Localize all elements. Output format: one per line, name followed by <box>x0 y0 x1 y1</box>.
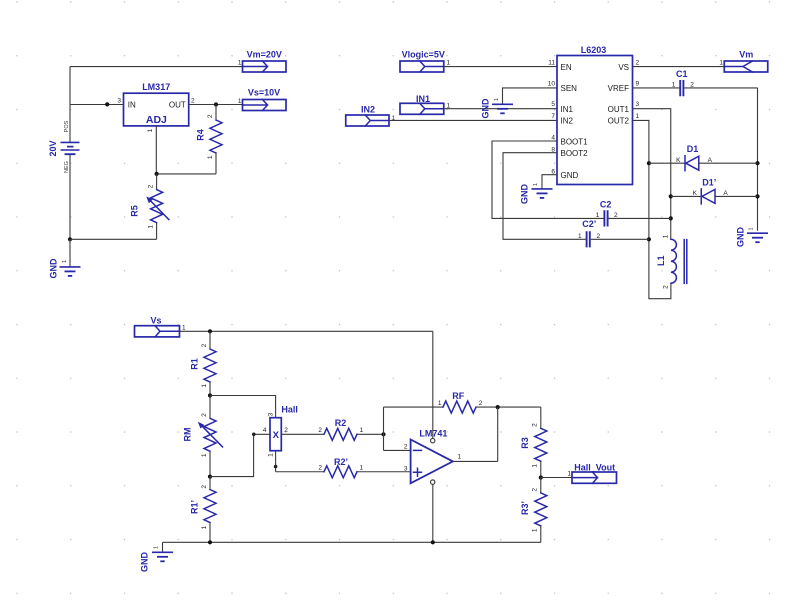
node junction D1' anode <box>755 194 759 198</box>
wire IN1 port to pin IN1 <box>444 108 557 110</box>
svg-text:5: 5 <box>551 101 555 108</box>
svg-text:POS: POS <box>64 120 70 132</box>
svg-text:1: 1 <box>182 325 186 332</box>
svg-text:L6203: L6203 <box>581 45 607 55</box>
svg-text:20V: 20V <box>48 140 58 156</box>
svg-text:1: 1 <box>662 234 669 238</box>
wire GND rail bottom <box>163 541 541 543</box>
wire LM317 ADJ pin down <box>155 126 157 174</box>
wire D1 cathode side <box>649 162 685 164</box>
svg-text:OUT1: OUT1 <box>608 105 630 114</box>
wire to RF pin1 <box>384 406 444 408</box>
svg-text:R1: R1 <box>190 358 200 370</box>
inductor L1 <box>656 234 687 289</box>
node junction op-amp V-/rail <box>431 540 435 544</box>
svg-text:1: 1 <box>533 183 539 186</box>
svg-text:ADJ: ADJ <box>146 114 167 126</box>
svg-text:GND: GND <box>520 184 530 205</box>
diode D1 <box>676 144 713 171</box>
node junction RM/R1' <box>208 475 212 479</box>
op-amp U LM741 <box>411 429 453 485</box>
node junction R2/feedback <box>381 432 385 436</box>
svg-text:2: 2 <box>201 413 208 417</box>
wire top rail from battery to port Vm=20V <box>70 66 243 68</box>
wire IN2 port to pin IN2 <box>389 119 557 121</box>
wire OUT1 right and down to L1 <box>633 109 671 240</box>
svg-text:VREF: VREF <box>608 84 629 93</box>
node junction battery/R5 ground rail <box>68 237 72 241</box>
wire R5 bottom to battery column <box>70 238 157 240</box>
port IN1 <box>400 94 451 114</box>
svg-text:1: 1 <box>636 113 640 120</box>
capacitor C2' <box>578 219 601 247</box>
wire Vlogic to EN <box>444 66 557 68</box>
svg-text:LM317: LM317 <box>142 82 170 92</box>
svg-text:2: 2 <box>148 184 155 188</box>
svg-text:1: 1 <box>238 60 242 67</box>
svg-text:1: 1 <box>578 233 582 240</box>
wire Vs rail <box>180 330 433 332</box>
hall sensor U Hall <box>263 405 298 457</box>
wire to op-amp minus input <box>384 449 411 451</box>
port Vlogic=5V <box>400 49 451 72</box>
svg-text:IN1: IN1 <box>416 94 430 104</box>
svg-text:Vs: Vs <box>150 316 161 326</box>
wire rail to ground symbol <box>162 542 164 552</box>
svg-text:2: 2 <box>201 343 208 347</box>
svg-text:EN: EN <box>561 63 572 72</box>
svg-text:1: 1 <box>438 400 442 407</box>
resistor R3 <box>520 423 547 478</box>
diode D1' <box>693 178 729 204</box>
node junction OUT1/C2 <box>669 216 673 220</box>
svg-text:1: 1 <box>201 525 208 529</box>
port Hall_Vout <box>567 462 616 483</box>
svg-text:Hall: Hall <box>281 405 298 415</box>
svg-text:1: 1 <box>147 128 154 132</box>
wire RF pin2 to R3 <box>476 406 541 408</box>
wire op-amp output <box>453 407 498 461</box>
svg-text:X: X <box>273 430 280 441</box>
svg-text:Vlogic=5V: Vlogic=5V <box>402 49 445 59</box>
svg-text:OUT: OUT <box>169 101 186 110</box>
wire from battery column to LM317 IN <box>70 104 124 106</box>
svg-text:3: 3 <box>404 465 408 472</box>
svg-text:3: 3 <box>117 98 121 105</box>
wire D1' cathode side <box>671 195 701 197</box>
svg-text:SEN: SEN <box>561 84 578 93</box>
wire D1 anode side <box>699 162 758 164</box>
svg-text:1: 1 <box>458 454 462 461</box>
wire VS to port Vm <box>633 66 725 68</box>
wire feedback vertical <box>383 407 385 450</box>
node pin-end dot Hall pin1 <box>274 465 278 469</box>
svg-text:LM741: LM741 <box>419 429 447 439</box>
svg-text:2: 2 <box>191 98 195 105</box>
svg-text:R2’: R2’ <box>334 457 348 467</box>
port IN2 <box>346 104 396 126</box>
svg-text:1: 1 <box>154 546 160 549</box>
capacitor C1 <box>672 69 695 96</box>
svg-text:OUT2: OUT2 <box>608 117 630 126</box>
wire R4 bottom to ADJ node <box>157 173 216 175</box>
svg-text:1: 1 <box>201 384 208 388</box>
svg-text:NEG: NEG <box>64 161 70 173</box>
svg-text:10: 10 <box>548 81 556 88</box>
svg-text:2: 2 <box>318 427 322 434</box>
svg-text:3: 3 <box>267 412 274 416</box>
svg-text:R1’: R1’ <box>190 500 200 514</box>
resistor R2 <box>318 418 363 440</box>
svg-text:2: 2 <box>404 444 408 451</box>
wire GND pin 6 to ground <box>542 175 557 189</box>
wire BOOT2 to C2' <box>503 153 586 240</box>
wire to port Hall_Vout <box>541 477 572 479</box>
svg-text:2: 2 <box>284 427 288 434</box>
node junction R1'/rail <box>208 540 212 544</box>
ground GND (SEN) <box>481 98 514 119</box>
svg-text:1: 1 <box>360 464 364 471</box>
svg-text:L1: L1 <box>656 255 666 266</box>
svg-text:1: 1 <box>532 464 539 468</box>
resistor RF <box>438 391 483 413</box>
node junction R1/RM <box>208 393 212 397</box>
svg-text:2: 2 <box>207 114 214 118</box>
wire battery positive vertical <box>69 67 71 143</box>
svg-text:1: 1 <box>532 528 539 532</box>
wire Hall pin2 to R2 <box>281 433 324 435</box>
node junction OUT2/D1 <box>647 161 651 165</box>
wire LM317 OUT to port Vs=10V <box>189 104 243 106</box>
wire VREF to C1 <box>633 87 680 89</box>
ground GND (right column) <box>736 227 769 248</box>
svg-text:1: 1 <box>207 155 214 159</box>
node junction ADJ/R4/R5 <box>155 172 159 176</box>
wire C2 to OUT1 column <box>609 217 671 219</box>
svg-text:1: 1 <box>62 260 68 263</box>
svg-text:R5: R5 <box>129 205 139 217</box>
node junction D1 anode <box>755 161 759 165</box>
svg-text:Vm=20V: Vm=20V <box>247 49 282 59</box>
svg-text:D1: D1 <box>687 144 699 154</box>
potentiometer RM <box>183 396 223 477</box>
svg-text:1: 1 <box>749 227 755 230</box>
wire stub to ground symbol <box>69 239 71 267</box>
resistor R2' <box>318 457 363 478</box>
wire down to R3 <box>540 407 542 428</box>
wire D1' anode side <box>715 195 758 197</box>
svg-text:BOOT2: BOOT2 <box>561 149 589 158</box>
wire Hall pin1 down <box>275 451 277 472</box>
svg-text:1: 1 <box>201 453 208 457</box>
svg-text:1: 1 <box>672 82 676 89</box>
svg-text:C1: C1 <box>676 69 688 79</box>
svg-text:2: 2 <box>318 464 322 471</box>
wire OUT2 right and down <box>633 120 671 298</box>
svg-text:Hall_Vout: Hall_Vout <box>574 462 615 472</box>
svg-text:1: 1 <box>719 60 723 67</box>
svg-text:R3’: R3’ <box>520 501 530 515</box>
svg-text:1: 1 <box>567 471 571 478</box>
IC U L6203 body <box>557 45 633 185</box>
svg-text:1: 1 <box>360 427 364 434</box>
svg-text:K: K <box>676 157 681 164</box>
svg-text:GND: GND <box>561 171 579 180</box>
port Vs=10V <box>238 87 286 110</box>
wire C2' to OUT2 column <box>591 238 649 240</box>
ground GND (L6203 pin6) <box>520 183 553 204</box>
svg-text:9: 9 <box>636 81 640 88</box>
wire R1 node to Hall top pin <box>210 396 276 418</box>
svg-text:Vm: Vm <box>739 49 753 59</box>
svg-text:C2’: C2’ <box>582 219 596 229</box>
svg-text:1: 1 <box>267 453 274 457</box>
svg-text:GND: GND <box>736 227 746 248</box>
wire RM node up to Hall pin 4 <box>210 434 270 476</box>
wire R2' row to op-amp plus input <box>276 471 324 473</box>
wire op-amp V+ from Vs rail <box>432 331 434 438</box>
svg-text:2: 2 <box>532 423 539 427</box>
svg-text:2: 2 <box>532 488 539 492</box>
node junction R3/R3'/port <box>539 475 543 479</box>
svg-text:D1’: D1’ <box>702 178 716 188</box>
ground GND (bottom circuit) <box>140 546 174 572</box>
svg-text:Vs=10V: Vs=10V <box>248 87 280 97</box>
svg-text:RM: RM <box>183 428 193 442</box>
port Vm=20V <box>238 49 286 72</box>
node pin-end dot Hall pin4 <box>252 433 256 437</box>
svg-text:1: 1 <box>447 60 451 67</box>
svg-text:7: 7 <box>551 113 555 120</box>
svg-text:VS: VS <box>618 63 629 72</box>
svg-text:K: K <box>693 190 698 197</box>
resistor R1 <box>190 331 216 395</box>
svg-text:GND: GND <box>140 552 150 573</box>
op-amp regulator U LM317 body <box>124 82 189 126</box>
port Vs <box>135 316 187 337</box>
svg-text:IN: IN <box>128 101 136 110</box>
ground GND (top-left circuit) <box>49 258 81 279</box>
wire BOOT1 to C2 <box>492 141 604 218</box>
node junction OUT2/C2' <box>647 237 651 241</box>
node junction Vs/R1 <box>208 329 212 333</box>
svg-text:4: 4 <box>263 427 267 434</box>
svg-text:R2: R2 <box>335 418 347 428</box>
wire SEN to ground <box>503 88 558 104</box>
wire battery negative down to GND rail <box>69 154 71 239</box>
svg-text:2: 2 <box>662 285 669 289</box>
svg-text:2: 2 <box>636 59 640 66</box>
svg-text:BOOT1: BOOT1 <box>561 137 589 146</box>
svg-text:2: 2 <box>479 400 483 407</box>
svg-text:C2: C2 <box>600 200 612 210</box>
wire R2' to plus input <box>357 471 411 473</box>
node junction on IN wire <box>105 102 109 106</box>
svg-text:1: 1 <box>494 98 500 101</box>
svg-text:3: 3 <box>636 101 640 108</box>
node junction OUT1/D1' <box>669 194 673 198</box>
resistor R4 <box>196 105 222 174</box>
svg-text:R4: R4 <box>196 129 206 141</box>
svg-text:GND: GND <box>481 98 491 119</box>
resistor R3' <box>520 478 547 543</box>
svg-text:IN1: IN1 <box>561 105 574 114</box>
svg-text:2: 2 <box>201 485 208 489</box>
svg-text:IN2: IN2 <box>361 104 375 114</box>
wire R2 to inverting node <box>357 433 384 435</box>
wire right column down to ground <box>757 88 759 231</box>
node junction RF/output <box>496 405 500 409</box>
resistor R1' <box>190 477 216 543</box>
potentiometer R5 <box>129 174 169 239</box>
svg-text:IN2: IN2 <box>561 117 574 126</box>
svg-text:11: 11 <box>548 59 555 66</box>
svg-text:RF: RF <box>452 391 464 401</box>
node junction OUT/R4 <box>214 102 218 106</box>
svg-text:GND: GND <box>49 258 59 279</box>
capacitor C2 <box>596 200 618 227</box>
wire C1 to right column <box>684 87 757 89</box>
battery V 20V plates <box>61 142 80 154</box>
svg-text:1: 1 <box>148 225 155 229</box>
svg-text:1: 1 <box>596 212 600 219</box>
svg-text:1: 1 <box>238 98 242 105</box>
svg-text:R3: R3 <box>520 437 530 449</box>
wire op-amp V- to GND rail <box>432 484 434 542</box>
port Vm <box>719 49 767 72</box>
